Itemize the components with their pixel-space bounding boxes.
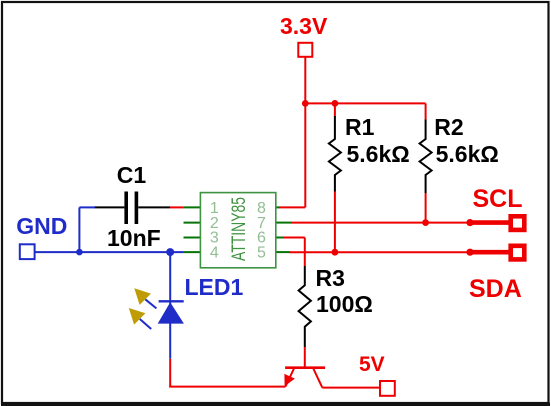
svg-text:R3: R3 bbox=[316, 265, 345, 291]
svg-text:R2: R2 bbox=[434, 114, 463, 140]
svg-text:5.6kΩ: 5.6kΩ bbox=[347, 141, 410, 167]
svg-text:GND: GND bbox=[16, 213, 67, 239]
svg-text:ATTINY85: ATTINY85 bbox=[229, 197, 250, 261]
svg-text:10nF: 10nF bbox=[107, 225, 161, 251]
svg-text:C1: C1 bbox=[117, 162, 147, 188]
svg-text:5.6kΩ: 5.6kΩ bbox=[436, 141, 499, 167]
svg-text:3.3V: 3.3V bbox=[280, 13, 328, 39]
svg-text:LED1: LED1 bbox=[185, 274, 244, 300]
svg-text:100Ω: 100Ω bbox=[316, 291, 373, 317]
svg-text:SDA: SDA bbox=[469, 275, 522, 303]
svg-text:SCL: SCL bbox=[473, 185, 523, 213]
svg-text:5V: 5V bbox=[359, 353, 385, 376]
svg-text:4: 4 bbox=[210, 244, 219, 261]
svg-text:5: 5 bbox=[257, 244, 266, 261]
svg-text:R1: R1 bbox=[345, 114, 375, 140]
